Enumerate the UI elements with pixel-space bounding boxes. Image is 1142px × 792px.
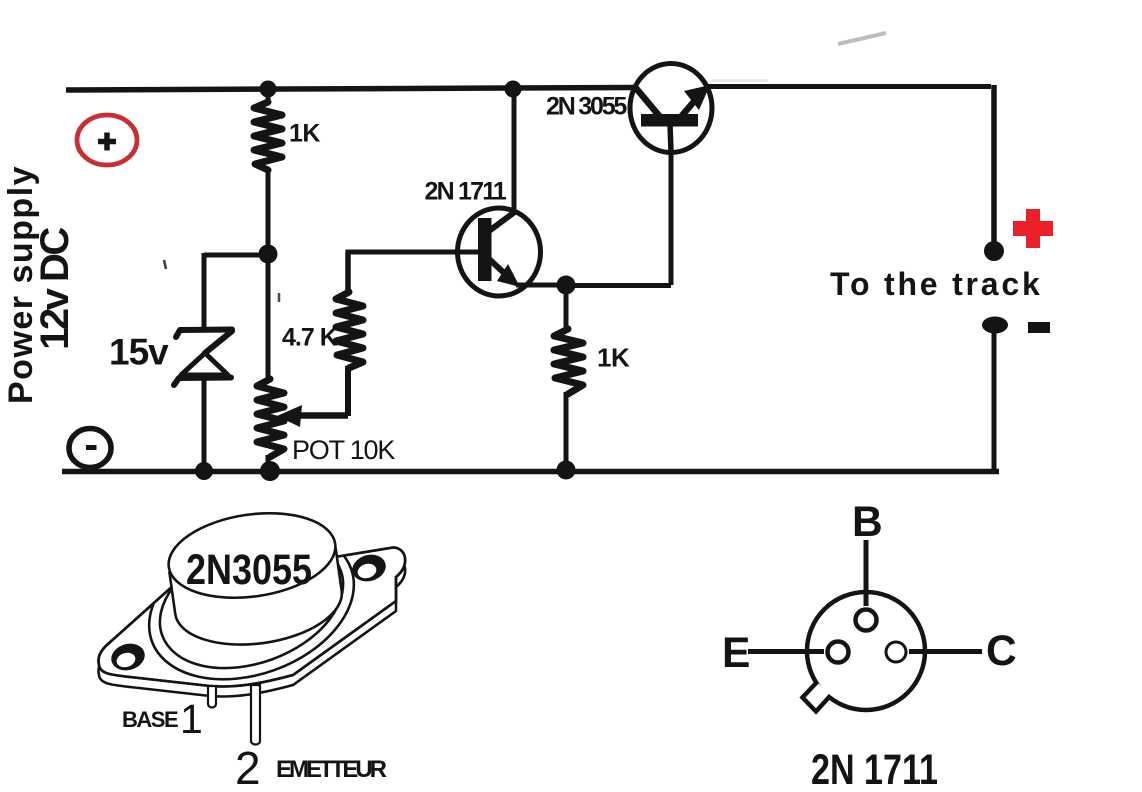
TO-3 inner rim ellipse — [142, 514, 362, 692]
pot wiper arrowhead — [277, 405, 302, 427]
wire pot top lead — [266, 254, 271, 381]
TO-3 pin 2 (emitter pin) — [251, 685, 260, 745]
TO-39 lead line C — [909, 649, 982, 654]
svg-text:4.7 K: 4.7 K — [282, 324, 338, 352]
svg-text:EMETTEUR: EMETTEUR — [276, 756, 387, 783]
zener diode diagonal — [205, 331, 232, 353]
node at R1 bottom junction — [259, 245, 278, 264]
svg-text:2N 1711: 2N 1711 — [425, 178, 507, 206]
svg-text:B: B — [852, 499, 883, 546]
TO-3 flange outline redraw — [98, 548, 405, 687]
svg-text:POT 10K: POT 10K — [292, 435, 395, 465]
plus sign inside red circle — [98, 133, 116, 151]
transistor Q1 base bar — [478, 218, 492, 281]
svg-text:2N3055: 2N3055 — [186, 547, 312, 594]
red plus sign (to the track) — [1013, 209, 1053, 248]
svg-text:15v: 15v — [109, 332, 169, 373]
transistor Q1 base wire overlap — [455, 250, 486, 255]
minus sign inside circle — [86, 445, 97, 450]
svg-text:1: 1 — [180, 696, 203, 742]
resistor R3 1K top lead — [564, 285, 569, 331]
transistor Q2 2N3055 body circle — [630, 64, 712, 153]
TO-39 tab fill — [803, 682, 831, 711]
transistor Q1 2N1711 body circle — [458, 208, 541, 296]
zener diode triangle — [181, 353, 228, 375]
wire zener top lead — [202, 253, 207, 328]
node at top rail / R1 — [260, 81, 277, 98]
TO-3 mounting hole right inner — [356, 562, 378, 581]
resistor R1 1K zigzag — [254, 102, 282, 170]
wire 2N1711 collector drop from rail — [512, 88, 517, 215]
resistor R3 1K zigzag — [554, 329, 583, 394]
wire bottom rail — [62, 469, 999, 475]
smudge top right — [838, 33, 886, 44]
wire junction to zener branch — [204, 253, 270, 258]
+ terminal dot right — [984, 241, 1004, 261]
transistor Q2 base stem inside circle — [670, 124, 671, 152]
black minus sign — [1028, 322, 1050, 333]
TO-3 flange shadow (thickness) — [98, 558, 405, 697]
wire zener bottom lead — [202, 378, 207, 468]
wire 2N3055 base stem (vertical) — [669, 127, 674, 285]
transistor Q1 emitter arrowhead — [497, 264, 520, 287]
zener diode anode bar — [174, 378, 231, 386]
svg-text:1K: 1K — [289, 120, 320, 148]
TO-3 mounting hole left inner — [115, 651, 137, 670]
resistor R3 bottom lead — [564, 392, 569, 470]
transistor Q1 collector line — [489, 211, 516, 231]
TO-39 case circle — [807, 592, 925, 710]
wire right drop to + terminal — [991, 85, 997, 245]
wire top rail right segment — [706, 84, 991, 89]
wire top rail left segment — [66, 88, 635, 91]
TO-39 lead line E — [748, 649, 824, 654]
terminal circle + (red) — [77, 115, 137, 165]
zener diode D1 cathode bar — [176, 330, 232, 338]
node emitter junction — [557, 276, 576, 295]
svg-text:2: 2 — [235, 742, 261, 792]
TO-3 outer rim ellipse — [128, 504, 374, 706]
resistor R2 4.7K zigzag — [336, 292, 363, 368]
- terminal dot right — [982, 317, 1008, 334]
svg-text:12v DC: 12v DC — [33, 228, 77, 350]
svg-text:E: E — [722, 630, 750, 677]
TO-3 pin 1 (base pin) — [208, 686, 216, 708]
node top rail / 2N1711 collector — [505, 81, 522, 98]
resistor R2 bottom lead — [345, 366, 351, 416]
wire right lower drop from - terminal — [992, 330, 997, 470]
TO-3 mounting hole right — [349, 551, 389, 585]
node zener bottom on rail — [195, 462, 213, 480]
wire 2N1711 emitter to node — [516, 283, 568, 288]
TO-3 flange — [98, 548, 405, 687]
pot wiper arrow wire — [296, 412, 348, 419]
TO-39 tab outline — [803, 682, 831, 712]
svg-text:To the track: To the track — [830, 266, 1043, 302]
smudge on rail — [712, 79, 768, 82]
label Power supply 12v DC (rotated) — [2, 165, 77, 404]
terminal circle - (black) — [69, 429, 111, 468]
TO-3 mounting hole left — [108, 640, 148, 674]
node pot bottom on rail — [260, 461, 280, 481]
TO-39 pin hole E — [828, 642, 849, 663]
resistor R1 bottom lead — [266, 170, 271, 254]
wire pot bottom lead — [266, 455, 271, 469]
potentiometer POT 10K zigzag — [257, 379, 284, 457]
node R3 bottom on rail — [557, 461, 576, 480]
transistor Q2 base bar — [641, 114, 698, 127]
svg-text:C: C — [986, 628, 1017, 675]
transistor Q2 emitter line — [680, 92, 702, 118]
resistor R2 4.7K top corner wire — [345, 252, 351, 294]
stray tick mark 1 — [164, 260, 166, 269]
svg-text:2N 3055: 2N 3055 — [546, 93, 627, 121]
wire emitter node to 2N3055 base (horizontal) — [566, 283, 671, 288]
svg-text:2N 1711: 2N 1711 — [811, 747, 938, 792]
TO-39 pin hole C — [886, 642, 906, 662]
stray tick mark 2 — [278, 293, 281, 302]
transistor Q2 collector line — [635, 87, 661, 118]
TO-3 can body — [169, 548, 347, 655]
svg-text:1K: 1K — [597, 343, 630, 373]
TO-39 pin hole B — [856, 610, 877, 631]
wire 4.7K top to 2N1711 base — [346, 250, 485, 255]
resistor R1 1K: top lead — [266, 88, 271, 104]
svg-text:BASE: BASE — [122, 707, 178, 732]
TO-39 lead line B — [864, 540, 869, 606]
transistor Q2 emitter arrowhead — [684, 85, 710, 110]
transistor Q1 emitter line — [489, 259, 514, 282]
